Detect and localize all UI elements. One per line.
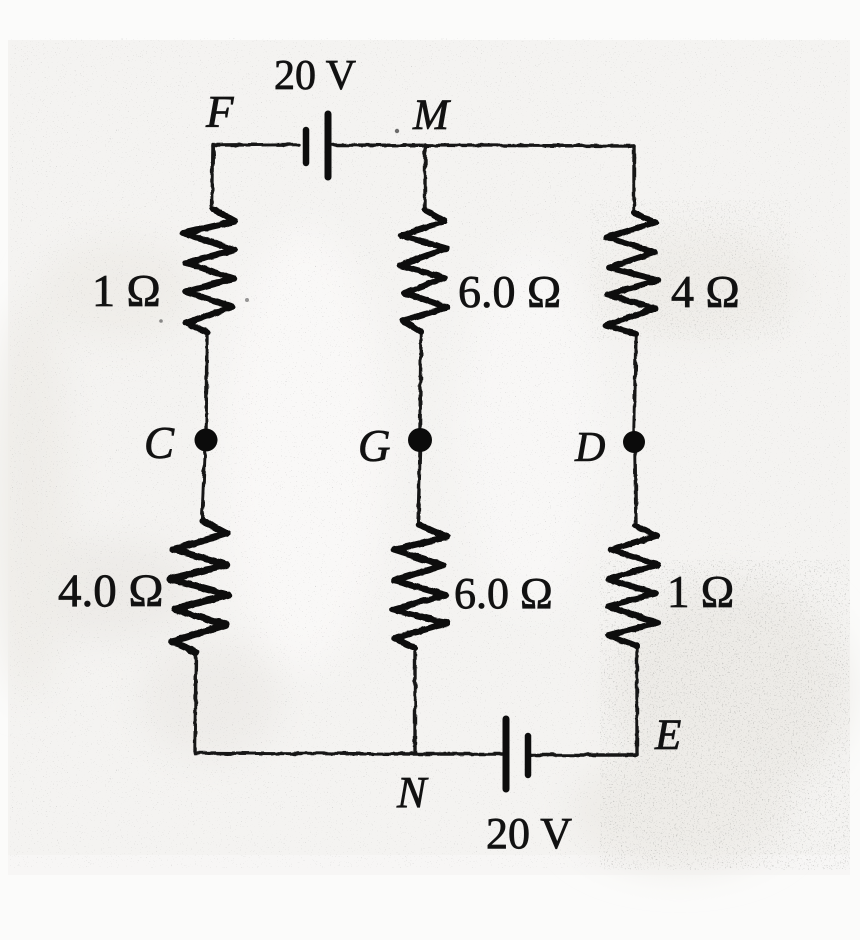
wire resistor R4 to bottom-left corner	[195, 652, 196, 753]
label 6.0 ohm (middle bottom)	[454, 568, 553, 619]
wire resistor R3 to node D	[634, 334, 636, 431]
node G junction dot	[408, 428, 432, 452]
label 4 ohm (right top)	[671, 265, 740, 318]
wire resistor R1 to node C	[206, 332, 207, 432]
resistor R5 6.0 ohm (middle bottom)	[393, 525, 448, 648]
label C	[144, 417, 174, 469]
wire left vertical below F	[212, 144, 213, 210]
stray scan speck near M	[395, 129, 399, 133]
label G	[358, 420, 391, 472]
battery B2 20V (bottom) long plate	[503, 719, 510, 789]
label 20 V (top battery)	[274, 52, 356, 100]
resistor R6 1 ohm (right bottom)	[608, 526, 658, 646]
wire resistor R5 to node N on bottom wire	[413, 648, 416, 753]
wire node C to resistor R4	[202, 449, 205, 522]
label F	[206, 86, 234, 138]
wire F corner to top battery	[213, 145, 299, 159]
label D	[575, 424, 605, 472]
label M	[413, 91, 449, 140]
label 1 ohm (left top)	[92, 264, 161, 317]
wire node D to resistor R6	[635, 452, 636, 527]
wire bottom battery to E corner	[531, 753, 637, 756]
wire node G to resistor R5	[418, 451, 420, 526]
resistor R3 4 ohm (right top)	[606, 213, 659, 334]
wire E corner up to resistor R6	[635, 647, 638, 755]
battery B1 20V (top) short plate	[303, 130, 310, 163]
battery B2 20V (bottom) short plate	[525, 736, 532, 775]
node C junction dot	[195, 429, 218, 452]
label 20 V (bottom battery)	[486, 808, 572, 859]
resistor R4 4.0 ohm (left bottom)	[170, 521, 229, 652]
node D junction dot	[623, 431, 645, 453]
wire top-right corner down to resistor R3	[632, 146, 635, 214]
wire bottom-left corner to bottom battery	[195, 753, 503, 754]
resistor R2 6.0 ohm (middle top)	[400, 210, 448, 332]
resistor R1 1 ohm (left top)	[183, 209, 236, 332]
battery B1 20V (top) long plate	[325, 114, 332, 177]
label N	[397, 767, 426, 818]
label E	[655, 711, 681, 760]
stray scan speck right of R1	[245, 298, 249, 302]
scanner shadow blobs	[0, 230, 850, 870]
wire resistor R2 to node G	[420, 332, 421, 429]
label 4.0 ohm (left bottom)	[58, 564, 163, 618]
wire top battery to M to top-right corner	[333, 145, 634, 146]
wire M junction down to resistor R2	[423, 145, 426, 211]
label 1 ohm (right bottom)	[667, 566, 734, 618]
stray scan speck below 1 ohm label	[159, 319, 163, 323]
label 6.0 ohm (middle top)	[458, 265, 561, 318]
